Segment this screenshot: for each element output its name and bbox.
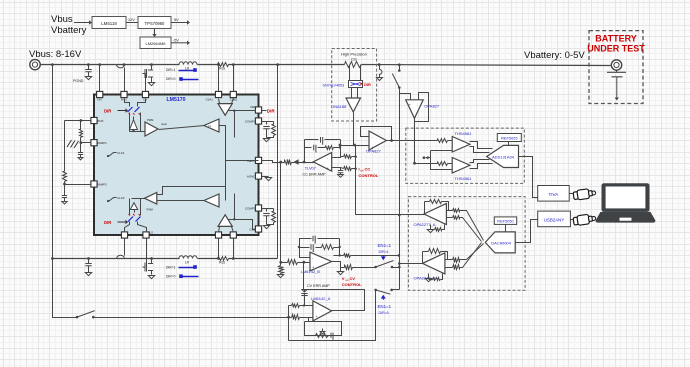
svg-text:COMP2: COMP2 <box>245 207 256 211</box>
wire mux legs to LO pins <box>125 222 130 233</box>
ground vset stub <box>340 268 342 272</box>
wire Vbatt sense down <box>280 163 282 263</box>
pin CSB1 top <box>230 91 236 97</box>
wire usb2any to usb <box>571 219 574 221</box>
wire tiva to usb <box>570 193 574 195</box>
svg-text:Vbus: 8-16V: Vbus: 8-16V <box>29 49 82 60</box>
svg-text:DIR=1: DIR=1 <box>166 68 176 72</box>
svg-text:CS: CS <box>351 57 357 62</box>
wire jump-over hump <box>117 255 125 258</box>
svg-text:THS4561: THS4561 <box>455 176 473 181</box>
wire LO pins drop <box>124 239 126 256</box>
icon laptop <box>596 183 656 222</box>
svg-text:VINX: VINX <box>97 119 104 123</box>
regulator TPS70960 <box>138 17 171 29</box>
diode clamp <box>292 162 295 164</box>
svg-text:Vbattery: 0-5V: Vbattery: 0-5V <box>524 50 585 61</box>
svg-text:set: set <box>360 169 364 173</box>
resistor in top <box>292 304 300 308</box>
svg-text:CV ERR AMP: CV ERR AMP <box>307 284 330 288</box>
svg-text:LM6142_A: LM6142_A <box>311 296 331 301</box>
pin CSB right <box>255 226 261 232</box>
resistor variable marks <box>67 140 79 148</box>
wire VIN pin drop <box>99 65 101 92</box>
svg-text:TLV07: TLV07 <box>305 165 316 170</box>
op-amp U11 OPA2277_B <box>423 253 445 274</box>
icon usb plug 1 <box>573 188 596 201</box>
node TLV07 output <box>303 161 306 164</box>
wire jump-over dip <box>117 65 125 68</box>
adc U9 ADS131A04 <box>487 145 519 167</box>
compensation COMP1 RC <box>262 122 267 125</box>
svg-text:PGND: PGND <box>73 79 84 83</box>
svg-text:LM5170: LM5170 <box>166 97 185 103</box>
wire VINX feed <box>65 120 92 122</box>
resistor shunt precision <box>345 62 362 68</box>
svg-text:OPA827: OPA827 <box>424 104 440 109</box>
wire CV feedback loop <box>304 263 365 311</box>
svg-text:USB2ANY: USB2ANY <box>544 218 565 223</box>
wire A3 out to DIR pin <box>229 110 256 112</box>
svg-text:CLK2: CLK2 <box>117 196 125 200</box>
ground Q2 source <box>151 275 153 276</box>
svg-text:ramp: ramp <box>161 122 167 126</box>
svg-text:VIN: VIN <box>97 98 102 102</box>
svg-text:CC ERR AMP: CC ERR AMP <box>303 173 326 177</box>
resistor CV input <box>288 260 298 265</box>
svg-text:RAMP2: RAMP2 <box>97 183 108 187</box>
feedback OPA2277_B <box>422 252 424 264</box>
wire OPA827v output down <box>414 119 416 164</box>
resistor out to sw1 <box>334 255 344 257</box>
svg-text:SN74LV4053: SN74LV4053 <box>323 84 345 88</box>
op-amp A3 current sense top <box>219 99 220 104</box>
op-amp U10 OPA2277_A <box>424 204 446 225</box>
reference REF5025 <box>497 134 521 142</box>
svg-text:12V: 12V <box>128 18 135 22</box>
resistor in bottom <box>292 315 300 320</box>
wire ths to adc diff pairs <box>470 142 493 149</box>
dac U12 DAC80004 <box>485 232 515 253</box>
comparator A4 pwm compare 1 <box>204 119 219 132</box>
mux M1 direction select switches <box>125 99 130 107</box>
interface USB2ANY box <box>538 211 571 227</box>
ground feedback <box>322 329 324 332</box>
wire arrow into LM5118 <box>74 22 89 24</box>
ground OPA2277_A bias <box>430 225 432 230</box>
pin CSA1 top <box>215 91 221 97</box>
reference REF5050 <box>494 217 516 225</box>
wire switch line long <box>94 317 292 319</box>
ground divider <box>277 275 283 278</box>
resistor out to sw2 <box>345 265 353 270</box>
wire bottom return <box>289 290 376 341</box>
capacitor noninv gnd <box>332 168 341 171</box>
wire HB1 pin drop <box>124 68 126 92</box>
svg-text:COMP1: COMP1 <box>245 120 256 124</box>
wire ref to adc <box>508 142 510 146</box>
amplifier U8 THS4561 bottom <box>452 158 470 174</box>
wire ISETA out <box>262 161 285 163</box>
regulator LM5118 <box>92 17 126 29</box>
inverter LM2664M6 <box>140 37 171 49</box>
pin RAMP2 left <box>91 181 97 187</box>
compensation COMP2 RC <box>262 209 267 212</box>
amplifier U4 INA188 <box>351 88 353 99</box>
feedback OPA2277_A <box>424 202 426 215</box>
svg-text:DIR=0: DIR=0 <box>166 77 176 81</box>
capacitor output bypass <box>88 259 90 264</box>
svg-text:LM5118: LM5118 <box>101 21 117 26</box>
svg-text:TIVA: TIVA <box>548 192 559 197</box>
capacitor input filter <box>304 294 306 297</box>
switch S3 discharge select <box>374 289 377 292</box>
op-amp U5 OPA827 buffer <box>369 131 386 150</box>
wire left rail down <box>53 65 78 318</box>
svg-text:LM2664M6: LM2664M6 <box>145 41 166 46</box>
pin SW1 top <box>142 91 148 97</box>
op-amp U2 TLV07 CC error amp <box>313 153 331 172</box>
feedback loop OPA827 v <box>415 93 429 122</box>
svg-text:DIR=1: DIR=1 <box>166 265 176 269</box>
op-amp A1 PWM1 <box>145 122 158 136</box>
feedback RC branch <box>305 147 312 149</box>
wire 5V output arrow <box>171 22 187 24</box>
svg-text:CLK1: CLK1 <box>117 151 125 155</box>
svg-text:REF5050: REF5050 <box>497 219 514 224</box>
icon usb plug 2 <box>573 213 596 226</box>
wire feedback rail LM6142_B <box>339 239 341 256</box>
transistor Q2 low-side <box>143 260 154 274</box>
wire ref5050 to dac <box>505 225 507 232</box>
wire switch to OPA827 <box>400 88 411 100</box>
svg-text:UNDER TEST: UNDER TEST <box>587 44 645 54</box>
wire control rail joins <box>398 214 401 217</box>
resistor dac b inputs <box>453 258 460 263</box>
wire INA188 output <box>353 113 355 146</box>
wire ths inputs <box>407 140 436 142</box>
wire top bus <box>41 64 180 66</box>
svg-text:DIR=0: DIR=0 <box>379 311 389 315</box>
svg-text:BATTERY: BATTERY <box>595 34 637 44</box>
svg-text:REF5025: REF5025 <box>501 136 517 141</box>
wire CLK2 stub <box>109 198 117 202</box>
svg-text:5V: 5V <box>174 18 179 22</box>
wire battery rail up <box>277 65 279 259</box>
pin HB1 top <box>121 91 127 97</box>
probe curl ground at bus <box>378 63 381 66</box>
svg-text:Rcs: Rcs <box>219 261 225 265</box>
wire CSA1 sense pair <box>218 65 220 92</box>
pin RAMP1 left <box>91 140 97 146</box>
svg-text:Vbattery: Vbattery <box>51 25 87 36</box>
pin VINX left <box>91 117 97 123</box>
resistor RCS1 shunt <box>218 63 229 67</box>
svg-text:PWM: PWM <box>147 208 153 212</box>
resistor ISETA <box>285 160 292 165</box>
resistor to Iset bottom <box>341 168 344 169</box>
wire dac to usb2any <box>516 220 538 243</box>
svg-text:DIR=1: DIR=1 <box>379 250 389 254</box>
wire gate to pin CH <box>145 74 147 92</box>
svg-text:TPS70960: TPS70960 <box>145 21 165 26</box>
block battery under test dashed <box>589 31 643 104</box>
feedback RC branch LM6142_B <box>300 247 310 249</box>
svg-text:CSA1: CSA1 <box>206 98 214 102</box>
wire internal nets <box>159 126 205 130</box>
wire CC sense line <box>341 145 370 147</box>
resistor RCS2 shunt <box>218 257 229 261</box>
switch S1 battery sense <box>399 65 401 71</box>
wire adc to tiva <box>519 157 538 198</box>
svg-text:DIR: DIR <box>364 82 371 87</box>
svg-text:Vbus: Vbus <box>51 14 73 25</box>
wire CLK1 stub <box>109 153 117 157</box>
svg-text:DIR: DIR <box>250 105 256 109</box>
wire 12V <box>127 22 139 24</box>
ground OPA2277_B bias <box>428 274 430 279</box>
resistor to Iset top <box>341 156 344 158</box>
svg-text:PWM: PWM <box>147 118 153 122</box>
capacitor ramp1 <box>80 143 82 153</box>
wire ths bias loop <box>431 150 453 152</box>
wire OPA827 out to ADC <box>387 140 407 142</box>
svg-text:CONTROL: CONTROL <box>359 173 379 178</box>
wire vertical control rail <box>399 88 401 290</box>
svg-text:ADS131A04: ADS131A04 <box>492 154 515 159</box>
wire Iset control rail <box>356 146 401 215</box>
wire vinx branch down <box>64 121 66 172</box>
wire dac outputs to opamps <box>460 211 484 241</box>
wire lm6142a left vertical <box>288 306 290 341</box>
ground AGND pin <box>262 176 269 178</box>
switch blades M2 <box>128 217 141 222</box>
op-amp U13 LM6142_B CV error amp <box>310 252 332 271</box>
svg-text:RAMP1: RAMP1 <box>97 141 108 145</box>
ground PGND <box>85 77 91 80</box>
ground Q1 source <box>151 81 153 83</box>
wire to LM2664M6 <box>154 29 156 35</box>
pin ISETA right <box>255 157 261 163</box>
resistor divider lower <box>279 266 284 274</box>
svg-text:CSB1: CSB1 <box>230 98 238 102</box>
buffer B2 mini triangle <box>130 203 137 210</box>
pin LO bottom <box>121 232 127 238</box>
feedback loop LM6142_A <box>305 318 313 322</box>
wire A6 out to CSB pin <box>229 220 256 230</box>
comparator A5 pwm compare 2 <box>204 194 219 207</box>
wire feedback rail <box>332 140 341 158</box>
pin VIN top <box>97 91 103 97</box>
svg-text:EN1=1: EN1=1 <box>378 243 392 248</box>
ground output cap <box>85 273 91 276</box>
svg-text:DAC80004: DAC80004 <box>491 240 511 245</box>
transistor Q1 high-side <box>143 67 154 81</box>
resistor dac a inputs <box>453 209 460 213</box>
node bus junctions <box>51 63 54 66</box>
pin AGND right <box>255 173 261 179</box>
resistor ramp1 branch <box>80 121 82 130</box>
mcu TIVA box <box>538 186 570 202</box>
svg-text:THS4561: THS4561 <box>455 131 473 136</box>
svg-text:CONTROL: CONTROL <box>342 282 362 287</box>
pin COMP2 right <box>255 205 261 211</box>
inductor L1 <box>179 62 197 65</box>
wire -5V output arrow <box>171 42 187 44</box>
svg-text:L#: L# <box>185 261 189 265</box>
mux M2 direction select switches <box>132 198 145 200</box>
mux U3 SN74LV4053 <box>349 81 363 88</box>
inductor L2 <box>179 256 197 259</box>
capacitor input bypass <box>88 65 90 70</box>
svg-text:AGND: AGND <box>247 175 257 179</box>
svg-text:CC: CC <box>365 167 371 172</box>
block DAC dashed <box>408 197 525 291</box>
op-amp A2 PWM2 <box>145 193 157 205</box>
cell battery symbol <box>616 71 618 73</box>
pin CSA2 bottom <box>215 232 221 238</box>
IC U1 LM5170 body <box>94 95 259 236</box>
feedback capacitor branch LM6142_B <box>300 239 312 258</box>
switch S2 CC/CV select <box>374 266 377 269</box>
svg-text:OPA2277_A: OPA2277_A <box>414 222 436 227</box>
svg-text:OPA827: OPA827 <box>366 149 382 154</box>
feedback loop OPA827 <box>361 127 392 142</box>
op-amp A6 current sense bottom <box>219 227 220 233</box>
pin COMP1 right <box>255 118 261 124</box>
block ADC dashed <box>406 128 525 183</box>
wire LM6142_B out <box>332 262 341 268</box>
connector J2 battery <box>611 60 621 70</box>
wire bottom bus <box>53 258 180 260</box>
svg-text:INA188: INA188 <box>333 104 347 109</box>
svg-text:DIR: DIR <box>267 109 276 114</box>
block High Precision CS dashed <box>332 49 377 122</box>
svg-text:CV: CV <box>350 276 356 281</box>
resistor ramp2 branch <box>63 172 67 182</box>
wire OPA2277_B out <box>400 263 423 265</box>
op-amp U6 OPA827 voltage buffer <box>406 100 424 119</box>
svg-text:Rcs: Rcs <box>219 67 225 71</box>
wire OPA2277_A out <box>401 214 425 216</box>
svg-text:EN1=1: EN1=1 <box>378 304 392 309</box>
label DIR cs mux <box>360 82 363 85</box>
svg-text:-5V: -5V <box>173 38 179 42</box>
wire kelvin sense pair <box>349 65 351 81</box>
feedback capacitor branch <box>304 140 306 163</box>
buffer B1 mini triangle <box>130 120 138 130</box>
op-amp U14 LM6142_A <box>313 301 332 321</box>
svg-text:DIR: DIR <box>104 220 111 225</box>
amplifier U7 THS4561 top <box>452 137 470 153</box>
pin DIR right <box>255 107 261 113</box>
node vcom arrow <box>426 157 431 159</box>
svg-text:DIR=0: DIR=0 <box>166 275 176 279</box>
wire CSA2 sense pair <box>218 239 220 259</box>
wire mux join <box>130 131 146 133</box>
connector J1 Vbus <box>30 59 40 69</box>
svg-text:DIR: DIR <box>104 109 111 114</box>
capacitor ramp2 <box>64 185 66 196</box>
switch S4 output relay <box>76 316 79 319</box>
